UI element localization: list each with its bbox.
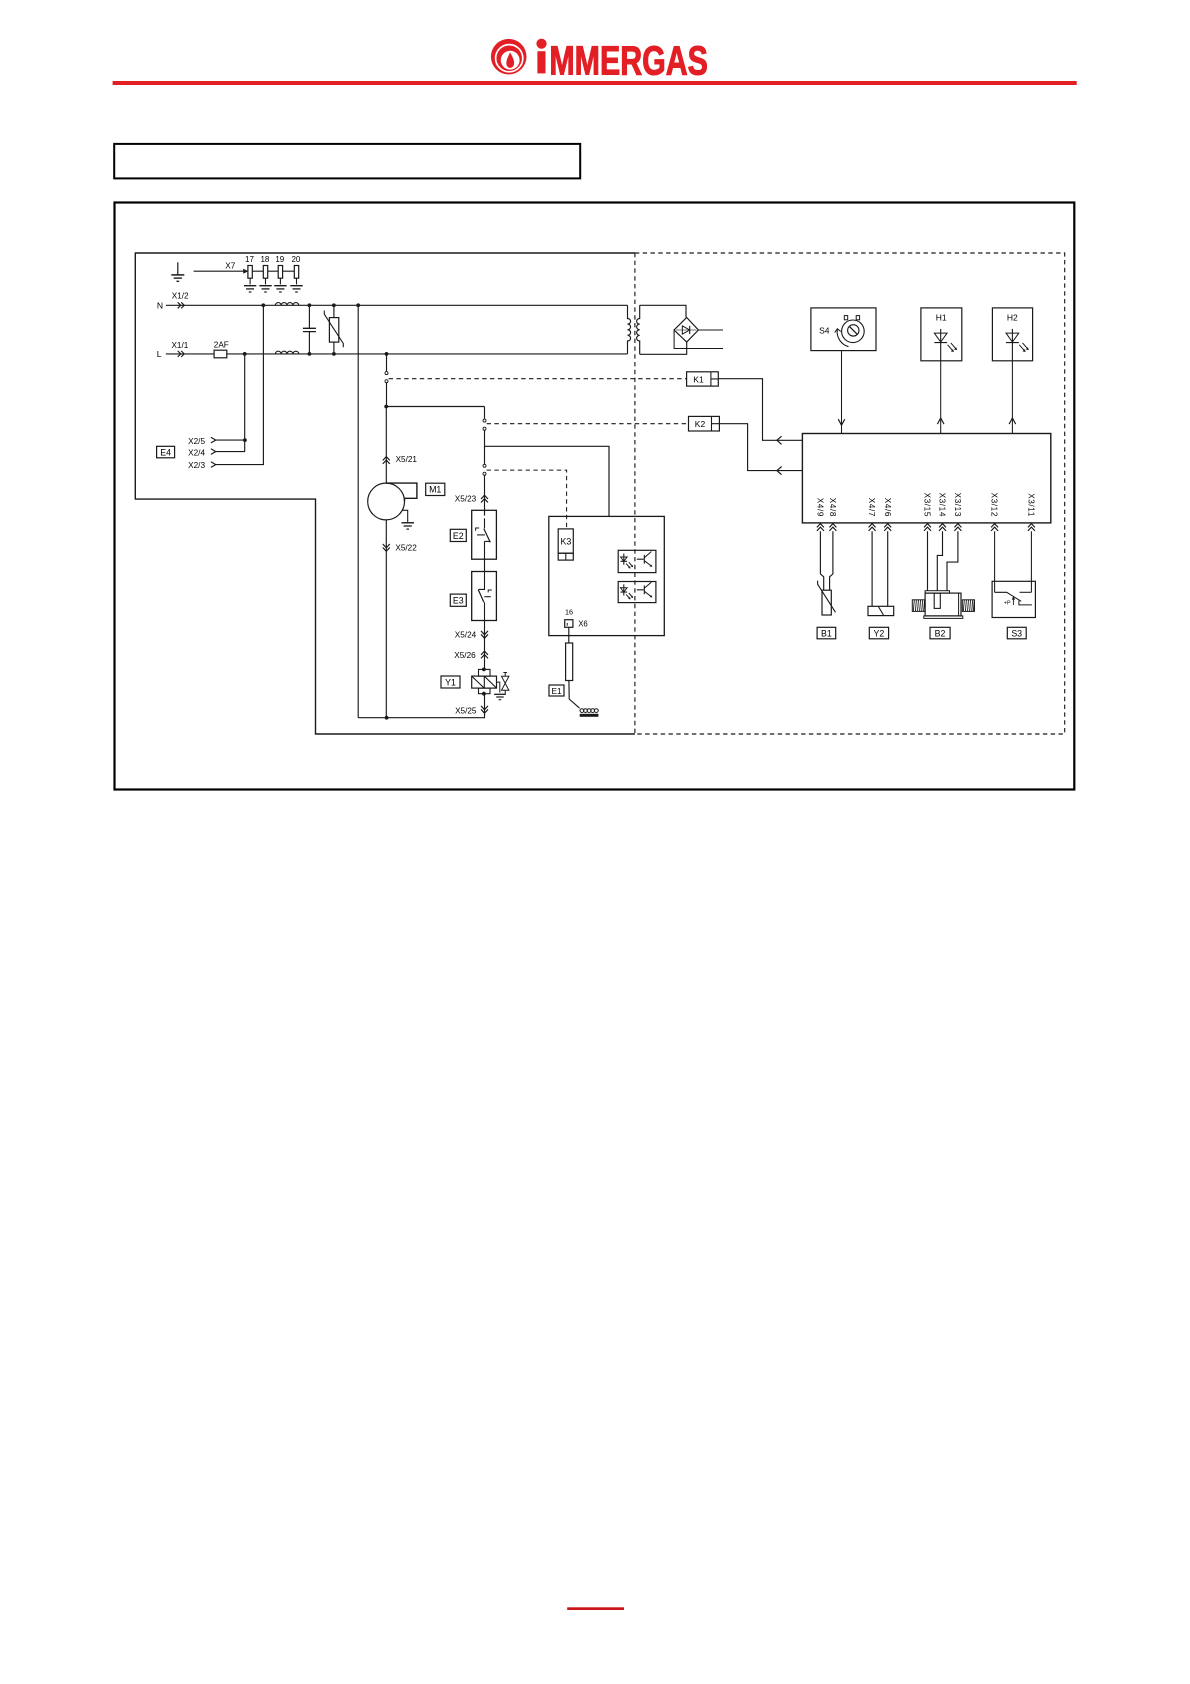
header red rule	[113, 81, 1077, 85]
svg-text:S3: S3	[1011, 628, 1022, 638]
gas valve symbol	[497, 673, 509, 695]
svg-text:H2: H2	[1007, 313, 1018, 323]
label E4	[157, 446, 175, 458]
gas valve solenoid Y1	[472, 668, 497, 696]
RIGHTTOP	[811, 308, 1033, 434]
svg-text:X2/5: X2/5	[188, 437, 205, 446]
pin X4/8	[828, 498, 837, 531]
node L label	[157, 341, 189, 359]
svg-text:E1: E1	[551, 687, 561, 696]
connector chevrons X1/1	[178, 351, 185, 357]
ground of gas valve	[494, 694, 506, 699]
connector X5/23	[455, 495, 488, 504]
varistor across N-L	[324, 305, 343, 354]
plug-in link to K3	[483, 464, 486, 475]
svg-text:B2: B2	[935, 628, 946, 638]
pressure switch S3	[992, 581, 1035, 617]
MAINS	[157, 291, 628, 359]
label E1	[549, 685, 564, 696]
ground of capacitor 19	[274, 286, 286, 292]
connector X5/22	[383, 544, 417, 553]
LED H1	[921, 308, 962, 361]
svg-text:E4: E4	[160, 447, 171, 457]
label E2	[450, 529, 466, 541]
wires PCB to B2	[928, 531, 958, 591]
wire through feedthrough capacitors	[249, 270, 297, 272]
wire bottom rail	[358, 717, 484, 719]
svg-text:X2/4: X2/4	[188, 448, 205, 457]
svg-text:X5/26: X5/26	[454, 651, 476, 660]
wire H1 to PCB	[937, 361, 944, 434]
wires PCB to S3	[995, 531, 1032, 592]
junction node to E2 branch	[384, 405, 484, 409]
svg-text:H1: H1	[936, 313, 947, 323]
connector chevrons X1/2	[178, 302, 185, 308]
capacitor 19	[275, 255, 284, 284]
svg-text:X4/6: X4/6	[883, 498, 892, 517]
svg-text:X1/1: X1/1	[171, 341, 188, 350]
wires PCB to B1	[820, 531, 833, 590]
connector X5/24	[455, 631, 488, 640]
wires PCB to Y2	[872, 531, 888, 606]
pin X3/11	[1027, 493, 1036, 531]
label E3	[450, 594, 466, 606]
fuse 2AF	[214, 341, 229, 358]
svg-text:X4/7: X4/7	[867, 498, 876, 517]
wire Y1 to bottom rail	[483, 694, 486, 718]
low-voltage section dashed boundary	[635, 253, 1065, 734]
svg-text:Y1: Y1	[445, 677, 456, 687]
IGNBOX	[487, 470, 665, 717]
connector X5/21	[383, 455, 418, 464]
ignition control unit box	[549, 516, 665, 635]
transformer secondary winding	[637, 305, 640, 354]
capacitor 20	[291, 255, 300, 284]
plug-in link to K1	[385, 372, 388, 383]
burner electrode coil	[580, 709, 599, 717]
wire branch to ignition unit top	[485, 446, 610, 516]
potentiometer S4	[811, 308, 876, 351]
NTC sensor B1	[818, 581, 836, 615]
plug-in link to K2	[483, 419, 486, 430]
pin X4/9	[816, 498, 825, 531]
svg-text:X3/11: X3/11	[1027, 493, 1036, 517]
relay K3	[558, 529, 573, 560]
dashed link K1 to fan chain	[389, 378, 687, 380]
svg-text:17: 17	[245, 255, 254, 264]
pin X3/15	[923, 493, 932, 531]
svg-text:2AF: 2AF	[214, 341, 229, 350]
arrow into PCB (K2)	[777, 467, 782, 475]
empty title box	[114, 144, 580, 179]
wire E2 to E3	[484, 559, 486, 571]
TRAFO	[628, 305, 724, 354]
wire L (line)	[166, 353, 628, 355]
label S3	[1007, 627, 1026, 639]
wire down to fan	[385, 407, 387, 484]
svg-text:X6: X6	[578, 619, 588, 628]
connector X6 pin	[565, 619, 588, 628]
label Y1	[441, 676, 460, 688]
overheat thermostat E2	[472, 510, 497, 559]
svg-text:X5/23: X5/23	[455, 495, 477, 504]
svg-text:M1: M1	[429, 485, 441, 495]
LED H2	[992, 308, 1032, 361]
wire K2 to PCB	[719, 424, 802, 471]
svg-text:X5/22: X5/22	[395, 544, 417, 553]
thread block left of B2	[912, 600, 925, 612]
junction X2/5 node	[243, 438, 247, 442]
dashed link K3	[487, 470, 567, 529]
svg-text:20: 20	[291, 255, 300, 264]
main PCB box	[802, 434, 1050, 523]
svg-text:X3/13: X3/13	[953, 493, 962, 517]
ignition electrode E1	[566, 643, 580, 708]
svg-text:X5/21: X5/21	[396, 455, 418, 464]
junction dots on L	[243, 352, 389, 356]
connector X5/25	[455, 706, 488, 716]
label B2	[930, 627, 950, 639]
relay K1	[687, 372, 719, 386]
wire X7 arrow to suppressor capacitors	[194, 262, 249, 274]
junction dots on N	[261, 303, 360, 307]
wire N (neutral line)	[166, 304, 628, 306]
connector X2/5	[188, 437, 216, 446]
connector X5/26	[454, 651, 488, 660]
wire secondary to rectifier	[640, 305, 687, 354]
node N label	[157, 291, 189, 310]
capacitor across N-L	[303, 305, 316, 354]
fan M1	[368, 483, 417, 520]
junction dot bottom rail	[385, 716, 389, 720]
optocoupler 2	[618, 582, 656, 603]
svg-text:18: 18	[260, 255, 269, 264]
wire with branch to ignition box	[484, 431, 486, 464]
wire X6 to ignition electrode	[568, 627, 570, 643]
svg-text:X5/25: X5/25	[455, 706, 477, 715]
inductor on L	[275, 351, 299, 354]
thread block right of B2	[962, 600, 974, 612]
svg-text:X3/12: X3/12	[990, 493, 999, 517]
svg-text:X1/2: X1/2	[172, 291, 189, 300]
E2CHAIN	[441, 407, 609, 718]
svg-text:19: 19	[275, 255, 284, 264]
transformer primary winding	[628, 305, 631, 354]
wire fan to bottom rail	[385, 520, 387, 718]
PCB	[802, 434, 1050, 531]
wire H2 to PCB	[1009, 361, 1016, 434]
svg-text:+P: +P	[1004, 601, 1011, 607]
wire L drop upper segment	[386, 354, 388, 371]
label Y2	[869, 627, 888, 639]
relay K2	[689, 416, 720, 431]
arrow into PCB (K1)	[777, 436, 782, 444]
svg-text:K3: K3	[561, 536, 572, 546]
wire L drop via fuse node to X2/5 and X2/4	[216, 354, 245, 452]
svg-text:X5/24: X5/24	[455, 631, 477, 640]
label B1	[817, 627, 836, 639]
FOOTER	[567, 1607, 624, 1610]
svg-text:K1: K1	[693, 374, 704, 384]
capacitor 17	[245, 255, 254, 284]
wire S4 to PCB	[838, 351, 845, 434]
wire to junction node	[386, 383, 388, 407]
pin X4/7	[867, 498, 876, 531]
svg-text:X3/15: X3/15	[923, 493, 932, 517]
ground of capacitor 18	[259, 286, 271, 292]
FANCHAIN	[368, 354, 485, 718]
ground of capacitor 17	[244, 286, 256, 292]
svg-text:Y2: Y2	[874, 628, 885, 638]
modulating coil Y2	[868, 606, 894, 615]
svg-text:X2/3: X2/3	[188, 461, 205, 470]
svg-text:X7: X7	[225, 262, 235, 271]
SENSORS	[817, 531, 1035, 639]
wire N drop to X2/3	[216, 305, 264, 464]
svg-text:16: 16	[565, 608, 573, 617]
connector X2/3	[188, 461, 216, 470]
TITLEBOX	[114, 144, 580, 179]
HEADER	[113, 37, 1077, 85]
wire E3 to Y1	[484, 621, 486, 670]
mains-section solid boundary	[135, 253, 635, 734]
svg-text:K2: K2	[695, 419, 706, 429]
svg-text:E3: E3	[453, 596, 464, 606]
flow switch B2	[924, 591, 963, 619]
flue thermostat E3	[472, 572, 497, 621]
label M1	[426, 483, 445, 495]
KRELAYS	[389, 372, 803, 475]
wire branch down from node	[484, 407, 486, 419]
inductor on N	[275, 303, 299, 306]
pin X4/6	[883, 498, 892, 531]
chassis ground (top-left)	[171, 262, 184, 281]
svg-text:X4/8: X4/8	[828, 498, 837, 517]
svg-text:MMERGAS: MMERGAS	[549, 37, 708, 83]
svg-text:L: L	[157, 349, 162, 359]
outer diagram frame	[115, 203, 1075, 790]
ground of fan	[402, 510, 415, 529]
dashed link K2 to E2 chain	[487, 423, 689, 425]
ground of capacitor 20	[290, 286, 302, 292]
connector X2/4	[188, 448, 216, 457]
svg-text:X4/9: X4/9	[816, 498, 825, 517]
pin X3/12	[990, 493, 999, 531]
LEFTDROPS	[157, 305, 485, 719]
wire N drop to bottom rail	[357, 305, 359, 717]
Immergas logo wordmark	[536, 37, 708, 83]
bridge rectifier	[674, 318, 698, 343]
svg-text:N: N	[157, 300, 163, 310]
pin X3/14	[938, 493, 947, 531]
wire down to E2	[484, 476, 486, 516]
footer red rule	[567, 1607, 624, 1610]
rectifier DC output wires	[674, 330, 723, 349]
svg-text:X3/14: X3/14	[938, 493, 947, 517]
capacitor 18	[260, 255, 269, 284]
pin X3/13	[953, 493, 962, 531]
svg-text:E2: E2	[453, 531, 464, 541]
svg-text:S4: S4	[819, 326, 830, 336]
Immergas logo mark	[491, 39, 527, 75]
TOPLEFT	[171, 255, 302, 292]
optocoupler 1	[618, 550, 656, 572]
wire K1 to PCB	[718, 379, 802, 441]
svg-text:B1: B1	[821, 628, 832, 638]
